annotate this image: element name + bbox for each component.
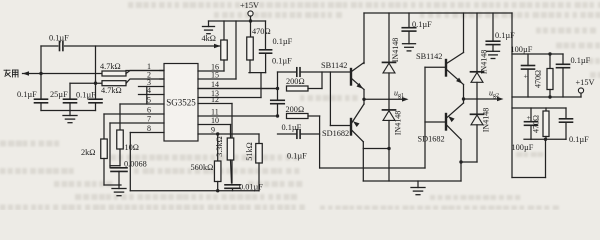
node 560k top dot (216, 132, 219, 135)
svg-text:7: 7 (147, 115, 151, 124)
potentiometer RP 4k (223, 21, 225, 40)
resistor R4 10ohm (pin5) (119, 104, 121, 130)
ground symbol top (208, 21, 210, 27)
resistor R5 560k (217, 134, 219, 161)
transistor Q1 SB1142 (350, 69, 352, 85)
svg-text:IN4148: IN4148 (480, 50, 489, 74)
svg-text:100µF: 100µF (512, 143, 534, 152)
output u_g2 arrow (477, 98, 499, 100)
capacitor C10 0.1uF (lower series) (278, 133, 297, 135)
wire base tie left pair (329, 72, 331, 126)
capacitor C14 0.1uF (filter1) (562, 54, 564, 64)
resistor R7 51k (pin9) (258, 134, 260, 144)
capacitor C13 100uF electrolytic (527, 54, 529, 66)
wire top supply rail (364, 12, 512, 14)
svg-text:0.1µF: 0.1µF (571, 56, 591, 65)
svg-text:470Ω: 470Ω (534, 70, 543, 88)
resistor R1 4.7k (pin1) (102, 71, 126, 76)
svg-text:6: 6 (147, 106, 151, 115)
node filter1 top dot (548, 52, 551, 55)
wire pin7 drop (109, 123, 111, 168)
wire pin15 riser (235, 21, 237, 79)
svg-text:4: 4 (147, 86, 151, 95)
capacitor C9 0.1uF (between rows) (277, 89, 279, 101)
svg-text:470Ω: 470Ω (252, 27, 271, 36)
svg-text:2kΩ: 2kΩ (81, 148, 95, 157)
wire R1 to pin1 (126, 70, 164, 72)
svg-text:5: 5 (147, 96, 151, 105)
svg-text:200Ω: 200Ω (286, 77, 305, 86)
svg-text:SG3525: SG3525 (166, 98, 196, 108)
node feedback label 反馈 (4, 70, 18, 77)
svg-text:IN4148: IN4148 (391, 38, 400, 62)
node pin14 RC left dot (276, 87, 279, 90)
diode D2 1N4148 (388, 99, 390, 110)
svg-text:560kΩ: 560kΩ (191, 163, 214, 172)
wire right block bottom (512, 177, 546, 179)
svg-text:200Ω: 200Ω (286, 105, 305, 114)
resistor R12 470 (filter2) (545, 108, 547, 111)
wire top compensation row (41, 45, 58, 47)
svg-text:100µF: 100µF (511, 45, 533, 54)
svg-text:0.1µF: 0.1µF (412, 20, 432, 29)
wire feedback row to R1 (41, 73, 102, 75)
node filter1 bottom dot (548, 95, 551, 98)
wire R9 right riser (308, 88, 322, 90)
node output1 dot (362, 98, 365, 101)
wire output1 row (364, 98, 389, 100)
wire pin13 riser (260, 73, 262, 98)
wire filter row2 top (512, 107, 566, 109)
node pin2 junction dot (94, 82, 97, 85)
ground symbol left cluster (69, 111, 71, 116)
svg-text:0.0068: 0.0068 (124, 160, 147, 169)
svg-text:12: 12 (211, 95, 219, 104)
wire filter row1 bottom (+15V bus) (512, 96, 581, 98)
svg-text:3.3kΩ: 3.3kΩ (215, 136, 224, 156)
IC right pin stubs and numbers 9-16 (198, 70, 224, 72)
capacitor C2 0.1uF (left, to ground) (35, 98, 48, 100)
capacitor C7 0.1uF (mid top) (265, 21, 267, 50)
node A junction dot (39, 72, 42, 75)
arrow into pot wiper (214, 44, 221, 49)
capacitor C15 100uF electrolytic (530, 108, 532, 122)
svg-text:8: 8 (147, 124, 151, 133)
svg-text:9: 9 (211, 126, 215, 135)
svg-text:10: 10 (211, 116, 219, 125)
svg-text:0.1µF: 0.1µF (282, 123, 302, 132)
resistor R10 200 (lower) (287, 114, 309, 119)
wire output2 row (464, 98, 478, 100)
svg-text:4.7kΩ: 4.7kΩ (100, 62, 121, 71)
svg-text:SD1682: SD1682 (418, 135, 445, 144)
svg-text:IN4148: IN4148 (482, 108, 491, 132)
svg-text:0.1µF: 0.1µF (76, 91, 96, 100)
svg-text:0.1µF: 0.1µF (287, 152, 307, 161)
svg-text:4.7kΩ: 4.7kΩ (101, 86, 122, 95)
node D4 collector join dot (459, 160, 462, 163)
node D2 collector join dot (387, 147, 390, 150)
svg-text:+15V: +15V (240, 1, 259, 10)
svg-text:SB1142: SB1142 (416, 52, 442, 61)
wire filter row1 top (512, 53, 563, 55)
node output2 dot (462, 97, 465, 100)
diode D3 1N4148 (476, 13, 478, 72)
wire Vc node (249, 72, 266, 74)
capacitor C8 0.1uF (upper series) (278, 71, 297, 73)
op-amp U1 SG3525 IC body (164, 64, 198, 142)
wire filter row2 bottom (524, 138, 566, 140)
svg-text:470Ω: 470Ω (532, 115, 541, 133)
wire pin14 row (198, 88, 278, 90)
svg-text:10Ω: 10Ω (125, 143, 139, 152)
wire bottom collector rail (363, 180, 461, 182)
node pin11 RC left dot (276, 114, 279, 117)
resistor R6 3.3k (pin10) (230, 125, 232, 139)
wire ground rail timing (104, 184, 121, 186)
svg-text:0.1µF: 0.1µF (17, 90, 37, 99)
svg-text:15: 15 (211, 71, 219, 80)
svg-text:SD1682: SD1682 (322, 129, 349, 138)
resistor R9 200 (upper) (287, 86, 309, 91)
wire pin12 ground drop (231, 104, 233, 184)
svg-text:25µF: 25µF (50, 90, 68, 99)
capacitor C6 0.01uF (225, 184, 240, 186)
svg-text:SB1142: SB1142 (321, 61, 347, 70)
capacitor C16 0.1uF (filter2) (565, 108, 567, 119)
transistor Q2 SD1682 (350, 119, 352, 135)
wire riser pin14-to-base row (277, 72, 279, 89)
diode D1 1N4148 (388, 13, 390, 62)
IC left pin stubs and numbers 1-8 (160, 70, 164, 72)
capacitor C1 0.1uF (top-left series) (59, 42, 61, 51)
svg-text:51kΩ: 51kΩ (245, 142, 254, 160)
svg-text:14: 14 (211, 80, 219, 89)
capacitor C11 0.1uF (rail left) (408, 13, 410, 28)
wire vertical feedback node (40, 46, 42, 99)
terminal +15V right (578, 88, 583, 93)
wire ground rail left (41, 110, 96, 112)
svg-text:0.1µF: 0.1µF (49, 34, 69, 43)
diode D4 1N4148 (476, 99, 478, 114)
node filter2 bottom dot (544, 138, 547, 141)
svg-text:+: + (527, 113, 531, 122)
output u_g1 arrow (389, 98, 404, 100)
resistor R8 470 (mid top) (250, 21, 252, 37)
wire base tie right pair (424, 67, 426, 168)
ground symbol timing (118, 185, 120, 189)
node +15V junction dot (249, 19, 252, 22)
transistor Q3 SB1142 (445, 60, 447, 76)
svg-text:0.1µF: 0.1µF (272, 57, 292, 66)
wire pin8 drop and bottom bus (129, 133, 131, 191)
resistor R11 470 (filter1) (549, 54, 551, 69)
wire base feed bottom run (320, 167, 425, 169)
capacitor C4 0.1uF (near pin2 node) (95, 81, 97, 99)
transistor Q4 SD1682 (445, 114, 447, 130)
resistor R2 4.7k (pin2) (102, 81, 126, 86)
wire lower RC right riser and drop (308, 115, 320, 117)
ground symbol bottom (417, 181, 419, 188)
resistor R3 2k (pin6) (103, 114, 105, 139)
wire top rail (gnd+15V row) (209, 20, 266, 22)
svg-text:0.1µF: 0.1µF (569, 135, 589, 144)
feedback output arrow (23, 71, 30, 76)
wire right block left rail (511, 13, 513, 178)
wire vertical pin2 node riser (95, 46, 97, 83)
capacitor C12 0.1uF (rail right) (492, 13, 494, 41)
svg-text:+: + (524, 72, 528, 81)
capacitor C5 0.0068uF timing (110, 165, 120, 167)
terminal +15V mid (248, 11, 253, 16)
svg-text:0.1µF: 0.1µF (273, 37, 293, 46)
svg-text:IN4148: IN4148 (394, 111, 403, 135)
wire pins3-4-5 tie vertical (146, 87, 148, 105)
svg-text:0.01µF: 0.01µF (239, 183, 263, 192)
node 560k bottom dot (216, 189, 219, 192)
svg-text:+15V: +15V (576, 78, 595, 87)
capacitor C3 25uF electrolytic (69, 83, 71, 99)
wire pin2 row (70, 82, 126, 84)
svg-text:4kΩ: 4kΩ (202, 34, 216, 43)
